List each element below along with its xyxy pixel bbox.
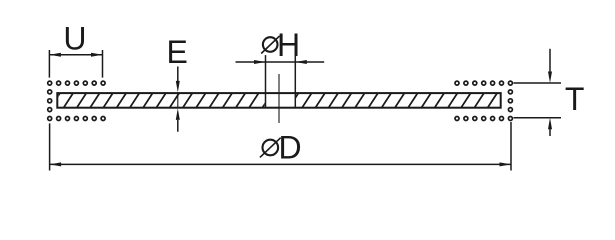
E lower arrow pointing up to bar bottom [176,108,180,120]
U right extension line [102,50,104,78]
D right extension line [510,122,512,171]
E upper arrow pointing down to bar top [177,67,179,82]
hatch pattern right of hole [289,93,524,108]
U left extension line [48,50,50,78]
D left extension line [49,123,51,170]
bore hole left edge [265,55,267,108]
left top dot row [48,81,52,85]
U dimension line with arrows [49,54,102,56]
right edge dot column [508,90,512,94]
T bottom extension line [514,117,562,119]
H left arrow [254,60,266,64]
left edge dot column [48,90,52,94]
disc body (hatched cross-section bar) [57,93,500,108]
diameter symbol of D [263,140,279,156]
svg-text:D: D [279,130,302,166]
right top dot row [455,81,459,85]
T upper dimension line with down arrow [549,49,551,73]
hatch pattern left of hole [37,93,285,108]
svg-text:T: T [565,81,585,117]
bore centerline [278,74,280,123]
diameter symbol of H [263,37,278,52]
T top extension line [514,82,562,84]
H right arrow [295,60,307,64]
D dimension line with arrows [50,163,511,165]
svg-text:U: U [63,21,86,57]
H dimension line [236,61,325,63]
T lower dimension line with up arrow [548,118,552,130]
svg-text:H: H [277,27,300,63]
bore hole right edge [294,55,296,108]
left bottom dot row [48,117,52,121]
svg-text:E: E [167,34,188,70]
right bottom dot row [455,117,459,121]
E line through bar [177,92,179,108]
